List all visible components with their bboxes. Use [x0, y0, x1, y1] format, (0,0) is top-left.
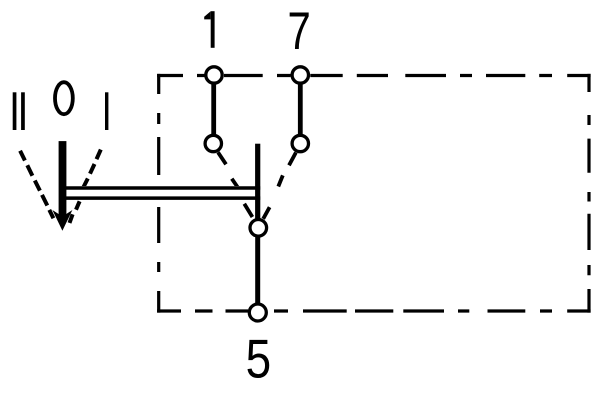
actuator bar (double line)	[62, 186, 260, 200]
label 1	[204, 11, 214, 48]
dashed diagonal from pivot 7 to common contact	[263, 153, 296, 219]
label 7	[288, 2, 311, 61]
lever shaft (position 0)	[59, 141, 67, 222]
enclosure border right (dash-dot)	[587, 74, 590, 313]
label 0	[55, 82, 73, 114]
terminal 7 shaft	[298, 80, 303, 138]
dashed diagonal position I (right lever position)	[70, 150, 101, 223]
common contact circle	[250, 220, 267, 237]
pivot circle below terminal 1	[205, 135, 221, 151]
terminal 5 circle	[249, 304, 266, 321]
svg-text:5: 5	[246, 328, 272, 390]
enclosure border top (dash-dot)	[157, 74, 590, 77]
terminal 1 shaft	[211, 80, 216, 138]
terminal 1 circle	[206, 67, 222, 83]
enclosure border bottom (dash-dot)	[157, 309, 590, 312]
dashed diagonal from pivot 1 to common contact	[218, 152, 252, 217]
common contact shaft upper	[255, 144, 260, 220]
terminal 7 circle	[292, 67, 308, 83]
dashed diagonal position II (left lever position)	[20, 151, 53, 219]
svg-text:7: 7	[288, 2, 311, 61]
position mark II	[13, 92, 25, 130]
common contact shaft lower	[255, 235, 260, 304]
position mark I	[105, 92, 108, 130]
label 5	[246, 328, 272, 390]
lever arrowhead	[52, 210, 72, 231]
enclosure border left (dash-dot)	[157, 74, 160, 313]
pivot circle below terminal 7	[292, 135, 308, 151]
